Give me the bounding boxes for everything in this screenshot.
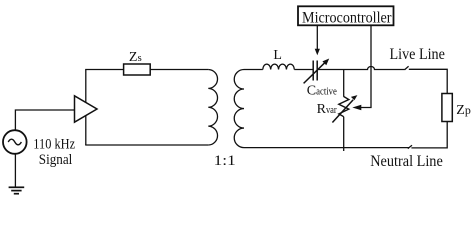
svg-text:1:1: 1:1 <box>214 153 236 169</box>
wire secondary top to inductor <box>244 69 263 71</box>
wire secondary bottom / neutral line left segment <box>244 147 409 149</box>
switch tick live line <box>405 66 409 69</box>
wire inductor to capacitor <box>294 69 313 71</box>
node Rvar branch from live line <box>343 70 345 97</box>
wire Zs to transformer primary <box>150 69 208 71</box>
svg-text:110 kHz: 110 kHz <box>33 136 75 152</box>
op-amp U1 triangle <box>75 96 98 122</box>
wire top left to Zs <box>85 69 123 71</box>
wire neutral line right segment <box>411 122 447 148</box>
svg-text:Rvar: Rvar <box>317 102 338 117</box>
wire live line from capacitor with hop over feedback line <box>317 66 405 69</box>
wire amp output vertical (behind triangle) <box>85 70 87 146</box>
inductor L <box>263 64 295 69</box>
switch tick neutral line <box>408 145 412 148</box>
capacitor variable arrow <box>304 59 330 84</box>
wire micro arrow to capacitor <box>315 25 320 55</box>
svg-text:Cactive: Cactive <box>307 84 338 99</box>
svg-text:Signal: Signal <box>39 152 73 168</box>
capacitor Cactive plates <box>312 61 314 81</box>
transformer secondary winding <box>234 70 244 148</box>
svg-text:Microcontroller: Microcontroller <box>302 9 392 26</box>
wire Rvar to neutral line with overshoot <box>343 117 345 151</box>
svg-text:Live Line: Live Line <box>390 46 445 63</box>
wire ground stem <box>14 154 16 188</box>
wire bottom left <box>85 144 208 146</box>
AC source V1 circle <box>3 130 27 154</box>
svg-text:Zp: Zp <box>456 103 471 118</box>
resistor Rvar variable arrow <box>332 95 357 122</box>
svg-text:L: L <box>273 48 282 63</box>
microcontroller box U2 <box>298 6 394 25</box>
svg-text:Zs: Zs <box>129 50 142 65</box>
resistor Rvar zigzag <box>339 97 349 117</box>
wire source top to input line <box>15 110 74 130</box>
load Zp box <box>442 94 452 122</box>
AC source sine wave <box>8 139 21 145</box>
ground symbol <box>9 187 25 193</box>
wire micro feedback line down to Rvar arrow <box>352 25 371 110</box>
resistor Zs box <box>124 64 151 75</box>
wire live line right segment to Zp <box>409 69 447 93</box>
svg-text:Neutral Line: Neutral Line <box>370 153 443 170</box>
transformer primary winding <box>208 70 217 146</box>
